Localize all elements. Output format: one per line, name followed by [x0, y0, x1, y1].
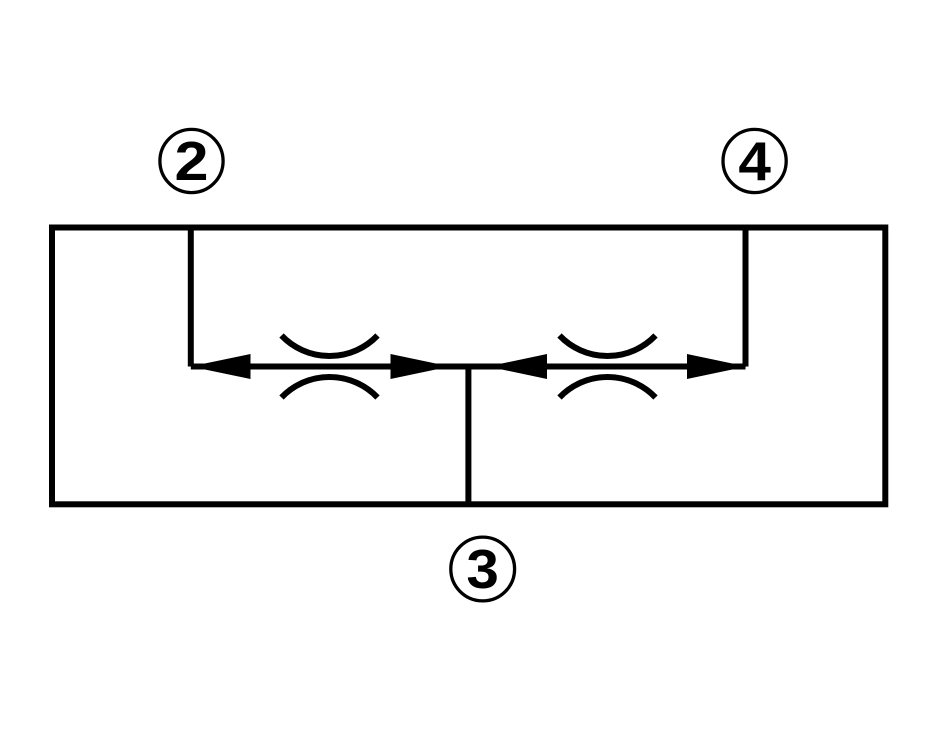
arrowhead toward port 2	[191, 354, 251, 379]
arrowhead toward node T right	[488, 354, 548, 379]
port label 4 circle	[723, 129, 786, 192]
port label 2 circle	[160, 129, 223, 192]
svg-text:4: 4	[738, 130, 771, 192]
orifice left upper arc	[282, 336, 378, 357]
arrowhead toward node T left	[391, 354, 451, 379]
wire port 3 stub	[465, 367, 471, 505]
port label 3 circle	[451, 537, 515, 601]
orifice right upper arc	[560, 336, 656, 357]
wire port 4 stub	[743, 228, 749, 367]
wire flow line	[191, 364, 746, 370]
orifice right lower arc	[560, 377, 656, 398]
svg-text:3: 3	[466, 538, 499, 600]
svg-text:2: 2	[175, 130, 209, 192]
valve body outline	[52, 228, 885, 505]
orifice left lower arc	[282, 377, 378, 398]
wire port 2 stub	[188, 228, 194, 367]
arrowhead toward port 4	[687, 354, 747, 379]
